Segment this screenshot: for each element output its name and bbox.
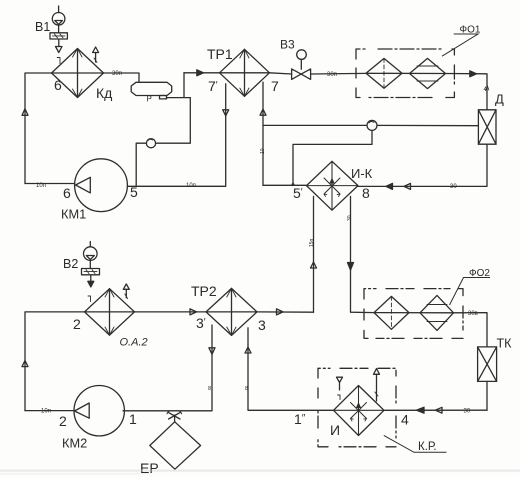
svg-text:10п: 10п [186, 183, 196, 189]
svg-text:3: 3 [258, 317, 266, 333]
valve B3 handwheel [297, 50, 307, 69]
svg-text:И: И [330, 422, 340, 438]
thermo valve TK [478, 347, 497, 382]
svg-text:10п: 10п [41, 409, 51, 415]
wire TP1 bottom-right 7 down to suction header [262, 82, 264, 185]
expansion valve D [478, 110, 496, 144]
wire I right 4 from TK with flow arrows [384, 407, 487, 413]
wire left riser to KM2 [25, 410, 74, 412]
svg-text:30п: 30п [327, 72, 337, 78]
wire EP stub [174, 415, 176, 422]
svg-text:30п: 30п [112, 71, 122, 77]
wire OA2 left vertex to left riser [25, 312, 85, 411]
svg-text:10п: 10п [36, 183, 46, 189]
wire TP1 bottom-left 7' down to KM1 suction [127, 84, 225, 187]
svg-text:4: 4 [401, 412, 409, 428]
filter unit FO2 boundary [364, 289, 463, 339]
heat exchanger TP2 [206, 288, 257, 335]
air-out arrow from Kd [93, 47, 99, 63]
svg-text:О.А.2: О.А.2 [120, 337, 148, 349]
FO1 filter element [366, 58, 402, 88]
flow arrow up on 7 line [260, 109, 266, 115]
air cooler OA2 [85, 289, 135, 335]
air-in arrow into I [337, 377, 343, 399]
svg-text:15п: 15п [309, 238, 315, 247]
flow arrow up on I-TP2 line [245, 347, 251, 353]
wire TP2 bottom-right down to evaporator line [248, 328, 334, 411]
svg-text:7: 7 [271, 78, 279, 94]
svg-text:КМ2: КМ2 [62, 436, 87, 451]
wire FO2 out to TK [454, 313, 488, 347]
svg-text:3′: 3′ [196, 315, 206, 331]
compressor KM2 [74, 386, 124, 436]
svg-text:30: 30 [464, 409, 471, 415]
FO1 drier element [410, 58, 446, 88]
cascade heat exchanger I-K [307, 161, 359, 210]
flow arrow down on 7' line [223, 110, 229, 116]
wire through FO1 elements [366, 72, 446, 74]
air-out arrow from OA2 [123, 284, 129, 299]
svg-text:1: 1 [129, 411, 137, 427]
svg-text:ТР1: ТР1 [207, 46, 233, 62]
svg-text:30: 30 [450, 184, 457, 190]
wire Kd right vertex to receiver [104, 73, 140, 82]
condenser Kd [52, 49, 104, 98]
equalizer line from 7-line to valve D [263, 124, 478, 126]
scan artifact band at bottom edge [0, 470, 520, 472]
svg-text:Д: Д [495, 92, 504, 107]
svg-text:7′: 7′ [208, 78, 218, 94]
svg-text:2: 2 [59, 413, 67, 429]
svg-text:2: 2 [73, 316, 81, 332]
svg-text:ТК: ТК [497, 337, 513, 351]
shut-off cross at EP tap [167, 411, 182, 419]
svg-text:Кд: Кд [96, 85, 112, 101]
air-in arrow into Kd [56, 40, 63, 64]
flow arrow up on I-K feed [311, 262, 317, 268]
svg-text:1″: 1″ [294, 411, 306, 427]
air-out arrow from I [374, 369, 380, 401]
svg-text:В2: В2 [63, 257, 78, 271]
svg-text:30: 30 [347, 215, 353, 221]
svg-text:ТР2: ТР2 [191, 283, 217, 299]
junction dot at bulb tap [292, 183, 295, 186]
receiver EP [150, 422, 201, 469]
wire through FO2 elements [374, 312, 454, 314]
wire D bottom to I-K 8 with flow arrows [358, 144, 487, 189]
wire receiver outlet to main liquid line [167, 73, 191, 99]
wire main liquid line to TP1 with flow arrow [184, 70, 220, 76]
fan B2 [84, 242, 98, 269]
flow arrow up on left riser c2 [22, 361, 28, 367]
wire bulb capillary to suction header tap [293, 130, 372, 185]
wire sight glass to KM1 suction line [136, 143, 146, 186]
svg-text:6: 6 [63, 185, 71, 201]
svg-text:8: 8 [245, 386, 248, 392]
wire B3 to FO1 [311, 72, 366, 75]
filter unit FO1 boundary [356, 49, 454, 98]
flow arrow down on TP2-KM2 line [209, 348, 215, 354]
air-in arrow into OA2 [88, 276, 94, 302]
wire TK bottom to evaporator line [486, 381, 488, 410]
svg-text:10: 10 [260, 148, 266, 154]
fan B1 [52, 6, 65, 33]
svg-text:К.Р.: К.Р. [418, 441, 437, 453]
svg-text:5: 5 [130, 184, 138, 200]
svg-text:5′: 5′ [293, 185, 303, 201]
FO2 filter element [374, 296, 409, 329]
svg-text:В3: В3 [280, 38, 295, 52]
svg-text:30в: 30в [468, 311, 478, 317]
svg-text:8: 8 [208, 386, 211, 392]
svg-text:И-К: И-К [351, 166, 373, 181]
heat exchanger TP1 [220, 49, 270, 96]
TEV bulb [367, 120, 377, 130]
wire KM2 discharge 1 to TP2 drop [123, 325, 212, 411]
svg-text:КМ1: КМ1 [61, 207, 86, 222]
wire I-K bottom-left up from TP2 circuit [313, 196, 315, 312]
wire receiver branch down to sight glass line [156, 98, 191, 144]
evaporator I [334, 386, 385, 436]
compressor KM1 [75, 159, 128, 212]
grille of B1 [50, 33, 67, 39]
wire I-K bottom-right down to FO2 [348, 196, 375, 312]
svg-text:8: 8 [362, 185, 370, 201]
chamber K.P. boundary [318, 368, 396, 447]
flow arrow up on left riser c1 [22, 109, 28, 116]
sight glass / solenoid on liquid injection line [146, 139, 155, 148]
svg-text:В1: В1 [35, 20, 50, 34]
grille of B2 [82, 269, 100, 275]
wire TP2 3 to I-K riser with hollow arrow [257, 309, 314, 315]
FO2 drier element [420, 295, 454, 330]
wire OA2 to TP2 with hollow arrow [135, 309, 207, 315]
valve B3 body [292, 69, 311, 80]
wire TP1 to B3 [270, 73, 292, 74]
wire FO1 out to right riser with arrow [446, 71, 489, 110]
wire left riser to KM1 suction-side 6 [25, 183, 75, 185]
svg-text:Р: Р [147, 95, 152, 104]
receiver P [131, 82, 172, 99]
wire suction header to I-K 5' [263, 184, 307, 186]
svg-text:6: 6 [54, 77, 62, 93]
wire Kd left vertex to left riser [25, 73, 52, 184]
